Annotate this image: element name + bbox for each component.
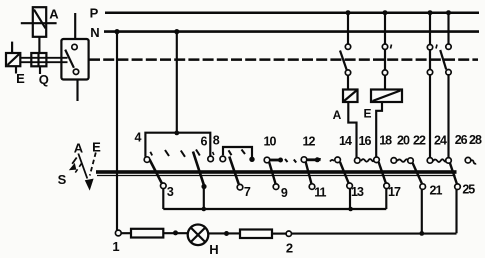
svg-text:E: E [363,107,371,121]
svg-text:14: 14 [339,134,352,148]
svg-text:25: 25 [462,183,475,197]
svg-text:3: 3 [167,185,174,199]
svg-text:6: 6 [201,135,208,149]
svg-text:20: 20 [397,134,410,148]
svg-text:11: 11 [314,186,326,200]
svg-text:12: 12 [303,135,316,149]
svg-text:18: 18 [379,134,392,148]
svg-text:E: E [92,140,101,155]
svg-text:2: 2 [286,241,293,256]
svg-text:10: 10 [264,135,277,149]
svg-text:16: 16 [359,134,372,148]
svg-text:P: P [90,5,99,20]
svg-text:22: 22 [413,134,426,148]
svg-text:9: 9 [281,186,288,200]
svg-text:N: N [90,25,99,40]
svg-text:S: S [58,172,67,187]
svg-text:E: E [16,71,25,86]
svg-text:A: A [49,7,59,22]
svg-text:17: 17 [388,185,401,199]
svg-text:13: 13 [351,185,364,199]
svg-text:A: A [74,141,84,156]
svg-text:4: 4 [135,131,142,145]
svg-text:8: 8 [213,134,220,148]
svg-text:24: 24 [434,134,447,148]
svg-text:Q: Q [39,72,49,87]
svg-text:28: 28 [469,133,482,147]
svg-text:1: 1 [112,239,119,254]
svg-text:7: 7 [244,185,251,199]
svg-text:H: H [209,242,218,257]
svg-text:A: A [333,108,342,122]
svg-text:26: 26 [455,133,468,147]
svg-text:21: 21 [430,184,443,198]
